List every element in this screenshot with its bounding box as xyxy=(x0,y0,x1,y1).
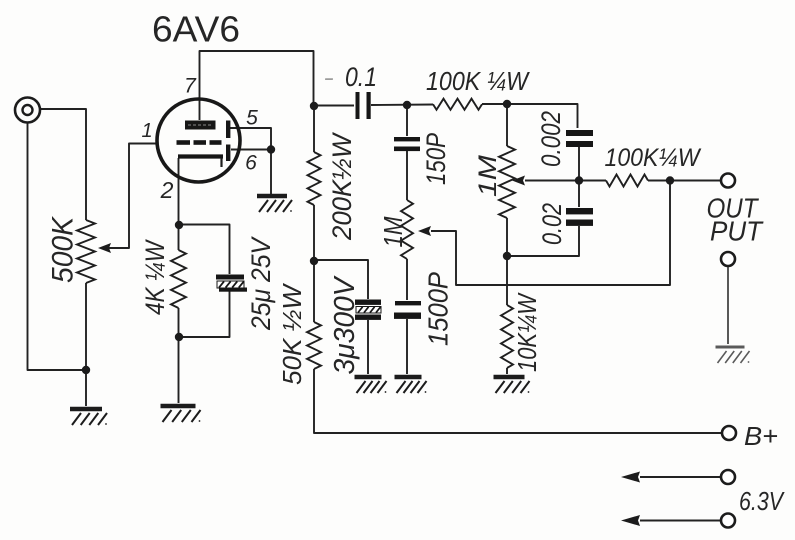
svg-text:150P: 150P xyxy=(421,133,451,185)
svg-text:1M: 1M xyxy=(378,216,408,247)
svg-text:0.002: 0.002 xyxy=(536,111,566,167)
svg-text:200K½W: 200K½W xyxy=(327,132,357,241)
svg-text:4K ¼W: 4K ¼W xyxy=(140,239,170,315)
svg-text:–: – xyxy=(324,70,333,86)
svg-text:1: 1 xyxy=(141,120,152,142)
svg-text:10K¼W: 10K¼W xyxy=(512,292,542,372)
svg-text:1M: 1M xyxy=(474,155,502,197)
svg-text:PUT: PUT xyxy=(710,216,764,247)
svg-text:100K ¼W: 100K ¼W xyxy=(426,66,530,96)
svg-text:6: 6 xyxy=(245,152,257,175)
svg-text:50K ½W: 50K ½W xyxy=(277,283,307,385)
svg-text:0.02: 0.02 xyxy=(537,203,567,245)
svg-text:25μ 25V: 25μ 25V xyxy=(246,235,276,331)
svg-text:2: 2 xyxy=(160,177,174,203)
svg-text:1500P: 1500P xyxy=(423,272,454,346)
svg-text:3μ300V: 3μ300V xyxy=(329,275,361,375)
svg-text:500K: 500K xyxy=(47,215,80,283)
svg-text:0.1: 0.1 xyxy=(345,62,377,92)
svg-text:7: 7 xyxy=(184,75,197,98)
svg-text:6.3V: 6.3V xyxy=(739,486,785,516)
svg-text:100K¼W: 100K¼W xyxy=(605,144,702,172)
svg-text:6AV6: 6AV6 xyxy=(152,9,240,50)
svg-text:B+: B+ xyxy=(744,421,778,451)
svg-text:5: 5 xyxy=(246,107,258,130)
